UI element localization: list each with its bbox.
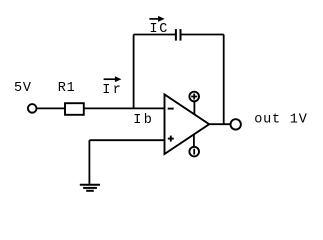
wire feedback top right segment bbox=[181, 34, 224, 36]
wire op-amp output bbox=[209, 123, 230, 125]
wire feedback left vertical bbox=[133, 35, 135, 109]
svg-text:out 1V: out 1V bbox=[254, 112, 308, 127]
wire positive supply stub bbox=[193, 102, 195, 115]
svg-text:5V: 5V bbox=[14, 81, 32, 96]
positive supply symbol bbox=[189, 92, 199, 102]
current arrow IC bbox=[149, 16, 164, 22]
ground bbox=[80, 185, 100, 191]
svg-text:Ib: Ib bbox=[133, 113, 154, 128]
wire input terminal to op-amp inverting input bbox=[37, 107, 165, 109]
op-amp U1 triangle bbox=[165, 94, 210, 154]
svg-text:IC: IC bbox=[150, 22, 169, 37]
capacitor C (feedback) bbox=[176, 29, 181, 40]
svg-text:R1: R1 bbox=[58, 81, 76, 96]
node output terminal bbox=[231, 119, 241, 129]
op-amp inverting input minus sign bbox=[168, 108, 174, 110]
negative supply symbol bbox=[189, 147, 199, 157]
node 5V input terminal bbox=[28, 104, 37, 113]
wire feedback top left segment bbox=[134, 34, 176, 36]
wire feedback right vertical bbox=[223, 35, 225, 125]
wire ground vertical bbox=[88, 140, 90, 184]
op-amp non-inverting input plus sign bbox=[168, 136, 174, 142]
current arrow Ir bbox=[104, 76, 122, 82]
wire non-inverting input horizontal bbox=[89, 139, 164, 141]
resistor R1 bbox=[65, 103, 84, 115]
wire negative supply stub bbox=[193, 134, 195, 146]
svg-text:Ir: Ir bbox=[102, 83, 123, 98]
